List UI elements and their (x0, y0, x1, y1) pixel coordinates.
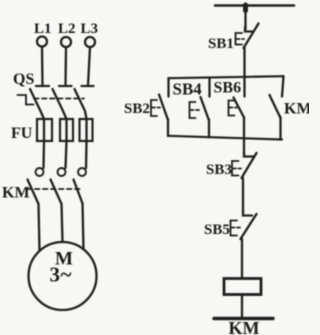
svg-text:QS: QS (13, 71, 34, 88)
svg-text:L2: L2 (58, 21, 76, 37)
svg-text:FU: FU (11, 125, 33, 142)
svg-text:SB4: SB4 (173, 80, 203, 99)
svg-text:SB1: SB1 (208, 36, 234, 52)
svg-text:L1: L1 (34, 21, 52, 37)
svg-text:SB5: SB5 (204, 222, 230, 238)
svg-text:KM: KM (229, 318, 260, 335)
svg-text:KM: KM (2, 185, 30, 202)
svg-text:KM: KM (284, 101, 309, 118)
svg-text:SB6: SB6 (214, 80, 242, 97)
svg-text:L3: L3 (81, 21, 99, 37)
svg-text:SB3: SB3 (206, 162, 232, 178)
svg-text:SB2: SB2 (124, 101, 150, 117)
svg-text:3~: 3~ (50, 263, 72, 287)
